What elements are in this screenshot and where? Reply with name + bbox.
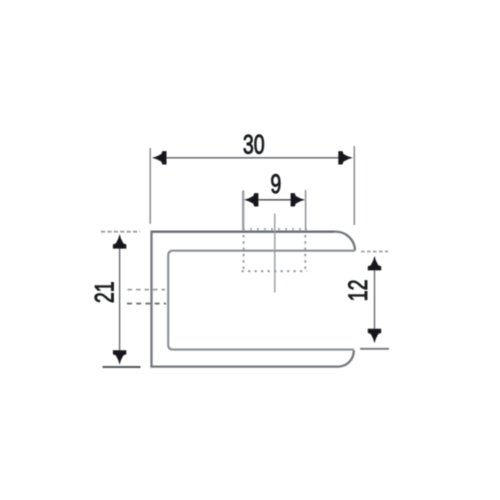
dim 30: dimension line <box>156 157 349 159</box>
hidden nut pocket: left dashed vertical <box>243 235 245 272</box>
dim 9: left arrowhead <box>244 193 259 206</box>
hidden hole in left wall: lower dashed line <box>127 303 166 305</box>
dim 12: bottom arrowhead <box>368 329 381 344</box>
clamp body outer contour <box>152 232 356 367</box>
dim 9: right extension line <box>305 190 307 230</box>
clamp body inner slot contour <box>168 251 355 350</box>
svg-text:30: 30 <box>243 130 265 160</box>
dim 30: left extension line <box>149 148 151 224</box>
dim 12: top arrowhead <box>368 256 381 271</box>
hidden nut pocket: right dashed vertical <box>304 235 306 272</box>
hidden hole in left wall: upper dashed line <box>128 289 166 291</box>
top edge emphasis overdraw <box>152 231 334 233</box>
dim 9: dimension line <box>247 199 303 201</box>
dim 21: dimension line <box>119 240 121 360</box>
dim 21: top extension line (dashed) <box>101 231 140 233</box>
serration ticks above top edge <box>244 228 306 231</box>
dim 21: top arrowhead <box>113 234 126 249</box>
vertical centerline of screw <box>274 214 276 293</box>
dim 12: top extension line (dashed) <box>361 251 388 253</box>
dim 30: left arrowhead <box>152 151 167 164</box>
dim 9: left extension line <box>242 191 244 231</box>
dim 9: right arrowhead <box>291 193 306 206</box>
dim 12: dimension line <box>374 262 376 336</box>
svg-text:9: 9 <box>270 169 281 199</box>
hidden nut pocket: bottom dashed horizontal <box>242 270 308 272</box>
svg-text:21: 21 <box>90 281 120 303</box>
dim 30: right extension line <box>353 146 355 225</box>
svg-text:12: 12 <box>343 279 373 301</box>
dim 12: bottom extension line <box>360 348 389 350</box>
dim 30: right arrowhead <box>338 151 353 164</box>
dim 21: bottom arrowhead <box>113 350 126 365</box>
dim 21: bottom extension line <box>103 366 141 368</box>
